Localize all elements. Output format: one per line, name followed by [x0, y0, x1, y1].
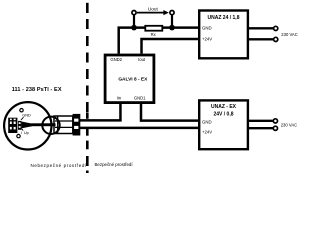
Uout measuring arrow — [137, 10, 169, 15]
svg-text:Rx: Rx — [151, 32, 157, 37]
svg-text:UNAZ 24 / 1,8: UNAZ 24 / 1,8 — [208, 15, 240, 21]
svg-text:Iout: Iout — [138, 57, 146, 62]
svg-text:GND1: GND1 — [134, 95, 146, 100]
svg-text:GND: GND — [202, 120, 212, 125]
svg-text:GND: GND — [202, 25, 212, 30]
svg-text:UNAZ - EX: UNAZ - EX — [211, 104, 237, 110]
sensor cable — [31, 123, 56, 126]
mains wire bottom lower — [248, 127, 273, 129]
mains wire bottom upper — [248, 120, 273, 122]
terminal circle left — [132, 11, 136, 15]
wire GALVI Iout to UNAZ +24V — [142, 39, 200, 54]
wire sensor I to GALVI Iin — [80, 104, 121, 120]
wire GALVI GND2 up to Uout rail — [119, 28, 200, 54]
wire GALVI GND1 to UNAZ-EX GND — [141, 104, 200, 121]
sensor cable lug (funnel) — [21, 122, 32, 129]
svg-text:GND: GND — [22, 113, 31, 118]
svg-text:Iin: Iin — [117, 95, 122, 100]
svg-text:I Up: I Up — [21, 130, 29, 135]
svg-text:Nebezpečné prostředí: Nebezpečné prostředí — [31, 163, 87, 168]
junction dot right — [169, 25, 175, 31]
terminal circle right — [170, 11, 174, 15]
mains terminal circle top upper — [274, 26, 278, 30]
svg-text:230 VAC: 230 VAC — [281, 122, 297, 127]
power supply UNAZ - EX box — [199, 100, 248, 149]
svg-text:24V / 0,8: 24V / 0,8 — [213, 112, 233, 118]
resistor Rx — [145, 26, 162, 31]
svg-text:GND2: GND2 — [110, 57, 122, 62]
isolator GALVI 8 - EX box — [105, 55, 154, 103]
plug connector body — [54, 116, 73, 134]
cable gland circle — [42, 117, 59, 134]
mains terminal circle bottom upper — [273, 119, 277, 123]
junction dot left — [131, 25, 137, 31]
svg-text:+24V: +24V — [202, 36, 212, 41]
mains wire top upper — [248, 27, 273, 29]
hazardous/safe area boundary (dashed line) — [86, 3, 89, 173]
mains terminal circle top lower — [274, 37, 278, 41]
svg-text:230 VAC: 230 VAC — [281, 32, 297, 37]
sensor terminal block — [8, 118, 17, 133]
mains wire top lower — [248, 38, 273, 40]
svg-text:Bezpečné prostředí: Bezpečné prostředí — [95, 162, 134, 167]
sensor cable clamp block — [18, 121, 21, 130]
mains terminal circle bottom lower — [273, 126, 277, 130]
sensor screw hole bottom — [17, 134, 20, 137]
sensor 111-238 head body circle — [4, 102, 51, 149]
svg-text:Uout: Uout — [148, 7, 159, 12]
svg-text:GALVI 8 - EX: GALVI 8 - EX — [118, 76, 148, 82]
power supply UNAZ 24 / 1,8 box — [199, 11, 248, 59]
stub to left Uout terminal — [133, 13, 135, 28]
wire sensor Up to UNAZ-EX +24V — [80, 127, 200, 130]
stub to right Uout terminal — [171, 13, 173, 28]
svg-text:111 - 238 PsTl - EX: 111 - 238 PsTl - EX — [12, 87, 62, 93]
sensor screw hole top — [20, 109, 23, 112]
svg-text:+24V: +24V — [202, 130, 212, 135]
plug connector end terminal — [73, 114, 81, 136]
